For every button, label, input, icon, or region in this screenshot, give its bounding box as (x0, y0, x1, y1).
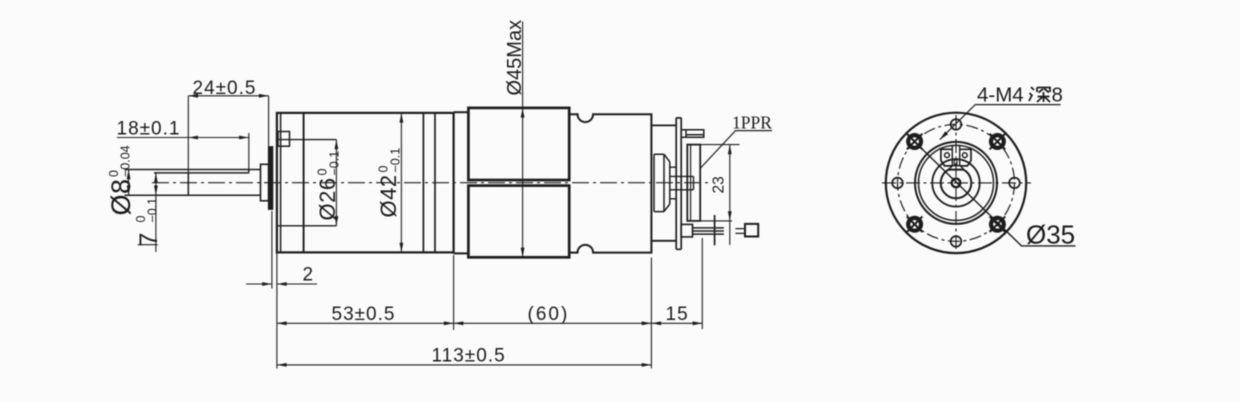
clip ear left (941, 149, 952, 166)
arrow 7 bottom (154, 186, 158, 196)
shaft top line (125, 169, 261, 171)
label o8 (106, 145, 136, 215)
arrow o42 bottom (400, 243, 404, 253)
dim 15 line (651, 322, 702, 324)
label o26 (315, 151, 342, 221)
encoder terminal pin bottom block (681, 224, 692, 237)
svg-text:53±0.5: 53±0.5 (332, 304, 396, 325)
motor front bell bottom (454, 252, 469, 254)
svg-text:−0.1: −0.1 (389, 148, 403, 173)
svg-text:−0.1: −0.1 (328, 151, 342, 176)
encoder lead wires (693, 228, 724, 234)
dim 53 and 60 line (277, 322, 652, 324)
4-M4 leader arrow (940, 131, 948, 139)
bolt hole top (951, 119, 962, 130)
svg-text:15: 15 (666, 304, 689, 325)
dim 2 ext left (271, 211, 273, 289)
svg-text:Ø42: Ø42 (376, 174, 401, 217)
shaft bottom line (125, 194, 261, 196)
encoder mount plate (676, 118, 681, 249)
o26 circle inner (919, 145, 994, 220)
M4 holes (907, 134, 1005, 232)
gearbox internal line 4 (434, 113, 436, 253)
lead crimp mark (714, 215, 716, 245)
outer circle (886, 113, 1026, 253)
bolt hole bottom (951, 236, 962, 247)
gearbox internal line 2 (303, 113, 305, 253)
arrow 18 right (239, 136, 249, 140)
rear boss (654, 154, 670, 211)
arrow 2 left (262, 282, 272, 286)
bearing boss (261, 164, 269, 201)
svg-text:8: 8 (1052, 84, 1063, 107)
motor rear housing outline (569, 114, 651, 252)
arrow 113 right (642, 363, 652, 367)
gearbox internal line 1 (280, 113, 282, 253)
bolt circle (898, 124, 1015, 241)
ext line gearbox rear (453, 255, 455, 330)
end view centerline vertical (955, 115, 957, 250)
connector stem (735, 229, 745, 234)
arrow 60 right (642, 321, 652, 325)
rear boss step (670, 167, 676, 199)
motor front bell top (454, 111, 469, 113)
o26 bottom feature line (277, 225, 337, 227)
encoder terminal pin top (681, 130, 704, 137)
dim 24 ext left (187, 96, 189, 173)
gearbox body (277, 113, 454, 253)
dim 23 ext top (700, 144, 739, 146)
M4 hole NW (907, 134, 923, 150)
shaft flat step (248, 170, 250, 173)
dimension texts (117, 78, 689, 367)
dim 23 line (729, 145, 731, 245)
rear shaft stub (670, 176, 694, 189)
dim 23 ext bottom (700, 220, 732, 222)
o26 circle outer (915, 142, 997, 224)
arrow 60 left (454, 321, 464, 325)
bolt hole right (1009, 178, 1020, 189)
clip slot (952, 146, 959, 166)
glyph shen (1029, 87, 1050, 102)
motor can lower half (468, 186, 569, 258)
arrow o8 top (127, 170, 131, 180)
svg-text:18±0.1: 18±0.1 (117, 119, 181, 140)
hub trapezoid (948, 166, 963, 170)
dim 18 ext right (248, 133, 250, 171)
dim o42 line (400, 113, 402, 253)
arrow 113 left (277, 363, 287, 367)
svg-text:−0.04: −0.04 (119, 145, 133, 177)
arrow 53 left (277, 321, 287, 325)
bolt hole left (892, 178, 903, 189)
arrow 53-60 mid left (444, 321, 454, 325)
svg-text:113±0.5: 113±0.5 (432, 346, 506, 367)
clip ear left hole (945, 153, 950, 158)
clip ear right (960, 149, 971, 166)
M4 hole SE (990, 217, 1006, 233)
label o42 (376, 148, 403, 218)
svg-text:Ø45Max: Ø45Max (504, 20, 526, 96)
arrow o45 bottom (521, 248, 525, 258)
svg-text:Ø35: Ø35 (1026, 220, 1075, 250)
arrow 7 top (154, 173, 158, 183)
svg-text:4-M4: 4-M4 (977, 84, 1024, 107)
4-M4 label leader (940, 105, 1061, 140)
encoder step bottom (651, 240, 676, 242)
arrow 15 left (651, 321, 661, 325)
shaft tip edge (187, 173, 189, 195)
svg-text:7: 7 (135, 233, 163, 247)
encoder body (687, 145, 700, 221)
arrow 23 bottom (728, 211, 732, 221)
encoder body inner line (690, 145, 692, 221)
o35 diameter line (906, 133, 1076, 246)
dim o8 line (128, 170, 130, 196)
dim 7 line (155, 173, 157, 252)
dim 7 text tick (138, 244, 158, 246)
svg-text:1PPR: 1PPR (732, 113, 772, 133)
center ring (952, 179, 961, 188)
END VIEW (882, 113, 1031, 253)
svg-text:Ø26: Ø26 (315, 177, 340, 220)
arrow o8 bottom (127, 186, 131, 196)
svg-text:24±0.5: 24±0.5 (193, 78, 257, 99)
svg-text:2: 2 (303, 265, 315, 286)
gearbox internal line 3 (422, 113, 424, 253)
label 23 (711, 176, 728, 193)
front screw boss square (278, 132, 290, 147)
dim 2 line (246, 283, 317, 285)
dim o45 leader (522, 22, 524, 258)
o26 top feature line (277, 139, 337, 141)
dim 24 line (188, 95, 268, 97)
arrowheads (127, 94, 732, 367)
shaft flat line (154, 172, 249, 174)
arrow o26 bottom (335, 216, 339, 226)
front flange (dark) (269, 147, 273, 209)
arrow o26 top (335, 140, 339, 150)
centerline side view (152, 182, 710, 184)
svg-text:−0.1: −0.1 (146, 198, 160, 223)
svg-text:(60): (60) (528, 304, 570, 325)
dim 113 line (277, 364, 652, 366)
dim 18 line (117, 137, 249, 139)
svg-text:23: 23 (711, 176, 728, 193)
arrow 23 top (728, 145, 732, 155)
arrow 24 left (188, 94, 198, 98)
label 7 (134, 198, 163, 247)
ext line gearbox face (276, 252, 278, 368)
ext line encoder right (701, 238, 703, 329)
dim 24 ext right (268, 96, 270, 146)
shaft circle with flat (941, 170, 972, 199)
M4 hole NE (990, 134, 1006, 150)
arrow 18 left (188, 136, 198, 140)
bearing circle (932, 159, 979, 206)
1PPR leader (700, 131, 772, 169)
connector end box (745, 224, 758, 237)
encoder step top (651, 124, 676, 126)
clip ear right hole (962, 153, 967, 158)
end view centerline horizontal (882, 182, 1031, 184)
dim o26 line (335, 140, 337, 226)
clip slot mark (954, 160, 957, 165)
ext line motor rear (650, 258, 652, 369)
arrow 24 right (259, 94, 269, 98)
arrow o42 top (400, 113, 404, 123)
arrow 2 right (277, 282, 287, 286)
arrow 15 right (693, 321, 703, 325)
label o45max (504, 20, 526, 96)
svg-text:Ø8: Ø8 (106, 178, 136, 215)
motor can upper half (468, 108, 569, 180)
arrow o45 top (521, 108, 525, 118)
M4 hole SW (907, 217, 923, 233)
